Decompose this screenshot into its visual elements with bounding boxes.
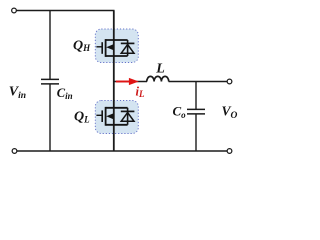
wire: Cin branch lower xyxy=(49,84,51,151)
wire: top horizontal from input terminal to rail xyxy=(16,10,114,12)
QH body diode cathode bar xyxy=(121,42,135,44)
QH gate lead xyxy=(96,46,102,48)
wire: main vertical rail through QH and QL xyxy=(113,11,115,152)
terminal: output + (open circle) xyxy=(227,79,232,84)
QH top bar (drain) xyxy=(106,39,128,41)
QL substrate arrow xyxy=(106,113,114,119)
capacitor Co plates xyxy=(187,108,205,110)
QL body diode cathode bar xyxy=(121,110,135,112)
wire: bottom horizontal return xyxy=(17,150,228,152)
svg-text:L: L xyxy=(155,62,165,77)
mosfet module box QH (dashed) xyxy=(95,29,138,63)
QL gate bar xyxy=(101,110,103,122)
QL top bar (drain) xyxy=(106,107,128,109)
QH body diode triangle xyxy=(121,45,134,54)
QH bottom bar (source) xyxy=(106,55,128,57)
QL body diode vertical xyxy=(127,108,129,125)
QH channel bar xyxy=(105,39,107,57)
terminal: input + (open circle) xyxy=(12,8,17,13)
transistor QH symbol xyxy=(96,39,134,57)
wire: Cin branch upper xyxy=(49,11,51,80)
QH gate bar xyxy=(101,42,103,54)
QL gate lead xyxy=(96,114,102,116)
wire: inductor to output terminal xyxy=(169,81,228,83)
transistor QL symbol xyxy=(96,107,134,126)
mosfet module box QL (dashed) xyxy=(95,101,138,134)
QL channel bar xyxy=(105,107,107,126)
wire: switch node to inductor xyxy=(114,81,147,83)
QL bottom bar (source) xyxy=(106,124,128,126)
QH substrate arrow xyxy=(106,44,114,50)
terminal: input - (open circle) xyxy=(12,149,17,154)
capacitor Cin plates xyxy=(41,78,59,80)
QH body diode vertical xyxy=(127,40,129,56)
wire: Co branch upper xyxy=(195,82,197,110)
inductor L coils xyxy=(147,76,169,81)
inductor current arrow iL (red) xyxy=(116,81,131,83)
terminal: output - (open circle) xyxy=(227,149,232,154)
wire: Co branch lower xyxy=(195,114,197,151)
QL body diode triangle xyxy=(121,113,134,122)
